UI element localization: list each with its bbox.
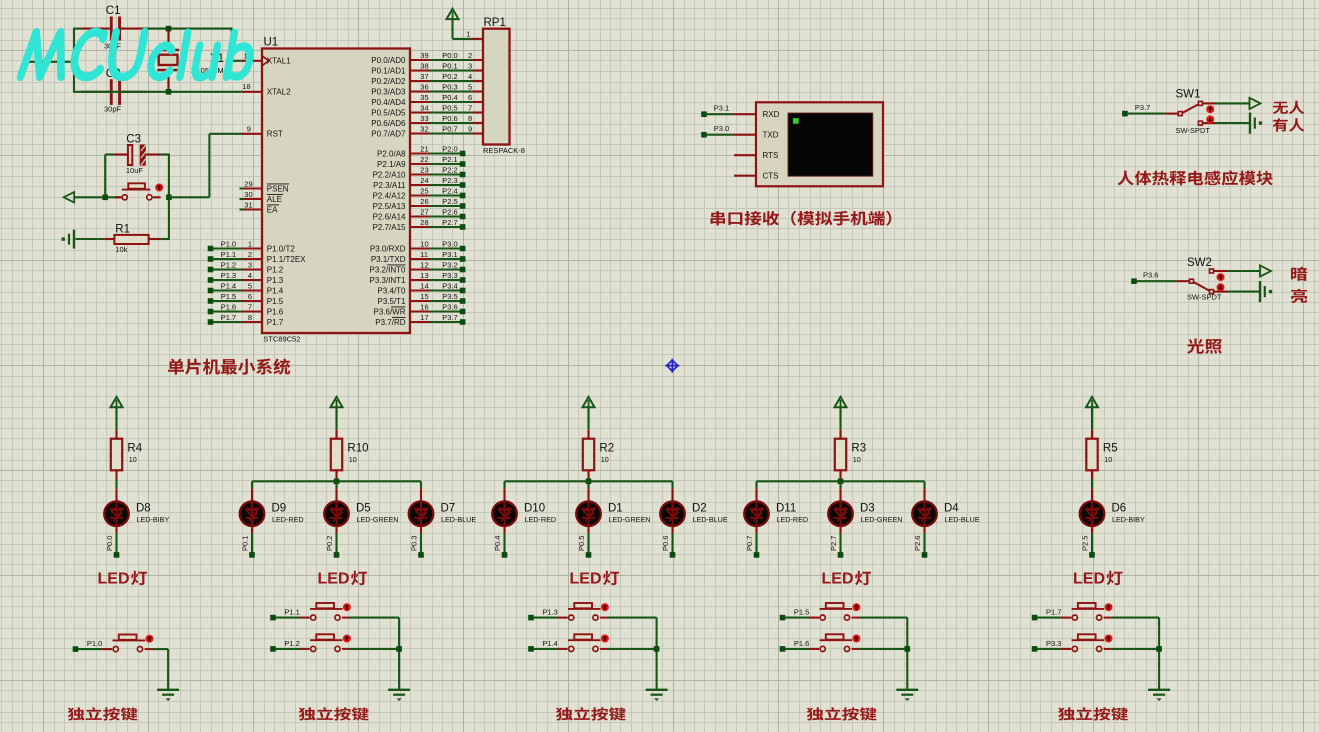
net P0.4 terminal (502, 552, 508, 558)
net P3.1 terminal (701, 111, 707, 117)
pin stub D4 bottom (923, 526, 925, 533)
svg-text:1: 1 (466, 30, 470, 39)
svg-text:10: 10 (349, 455, 357, 464)
svg-text:15: 15 (420, 292, 428, 301)
net P1.4 terminal (528, 646, 534, 652)
toggle indicator (P1.3) (601, 603, 609, 611)
svg-text:C3: C3 (126, 133, 141, 145)
svg-text:10: 10 (420, 239, 428, 248)
caption 亮 (1291, 289, 1307, 303)
svg-text:P2.1: P2.1 (442, 155, 457, 164)
wire net P0.0 (429, 59, 473, 61)
svg-text:P2.3/A11: P2.3/A11 (373, 181, 406, 190)
svg-text:P0.2: P0.2 (442, 72, 457, 81)
svg-text:P1.4: P1.4 (267, 286, 284, 295)
switch SW1 SW-SPDT (1166, 113, 1178, 115)
wire net P3.4 (429, 289, 462, 291)
node junction bus (586, 479, 592, 485)
pin stub R4 top (115, 430, 117, 439)
net P3.3 terminal (460, 277, 466, 283)
wire D5 to terminal (335, 533, 337, 552)
svg-text:6: 6 (468, 93, 472, 102)
LED D4 (LED-BLUE) (912, 501, 937, 526)
svg-text:16: 16 (420, 302, 428, 311)
svg-text:24: 24 (420, 176, 428, 185)
toggle indicator (P1.4) (601, 635, 609, 643)
wire ground to R1 (76, 238, 105, 240)
svg-text:P3.4: P3.4 (442, 281, 457, 290)
net P3.1 terminal (460, 256, 466, 262)
svg-text:LED-BLUE: LED-BLUE (441, 515, 476, 524)
pin stub P0.2/AD2 (410, 80, 429, 82)
svg-text:P1.4: P1.4 (221, 281, 236, 290)
ground (SW1) (1249, 113, 1251, 134)
caption 独立按键 (299, 707, 369, 720)
svg-text:LED-RED: LED-RED (272, 515, 304, 524)
push-button (P1.3) (557, 617, 568, 619)
svg-text:P1.1: P1.1 (284, 608, 299, 617)
wire net P3.3 (429, 279, 462, 281)
caption 人体热释电感应模块 (1117, 170, 1272, 185)
svg-text:LED-BLUE: LED-BLUE (945, 515, 980, 524)
svg-text:7: 7 (468, 103, 472, 112)
ground (SW2) (1259, 281, 1261, 302)
wire SW2 throw1 to arrow (1227, 270, 1260, 272)
wire reset to RST (169, 196, 210, 198)
pin stub RP1 pin 2 (473, 59, 484, 61)
svg-text:TXD: TXD (763, 131, 779, 140)
wire LED bus (757, 480, 925, 482)
svg-text:P2.5: P2.5 (1080, 536, 1089, 551)
svg-text:P3.7/RD: P3.7/RD (375, 318, 405, 327)
pin stub D2 bottom (671, 526, 673, 533)
wire net P1.0 (213, 247, 242, 249)
caption LED灯 (98, 571, 148, 588)
push-button (P3.3) (1061, 648, 1072, 650)
net P3.6 terminal (1131, 278, 1137, 284)
wire SW1 throw1 to arrow (1216, 102, 1250, 104)
svg-text:P0.3: P0.3 (409, 536, 418, 551)
LED D9 (LED-RED) (240, 501, 265, 526)
net P0.7 terminal (754, 552, 760, 558)
wire net P0.7 (429, 132, 473, 134)
wire bus to D2 (671, 481, 673, 488)
svg-text:10uF: 10uF (126, 166, 144, 175)
resistor pack RP1 body (483, 29, 510, 145)
wire left rail vertical (73, 28, 75, 93)
wire net P2.2 (429, 173, 462, 175)
wire R2 to bus (587, 479, 589, 481)
node junction button bus (1156, 646, 1162, 652)
wire net P1.2 (276, 648, 299, 650)
toggle indicator up (SW2) (1217, 273, 1225, 281)
pin stub D5 bottom (335, 526, 337, 533)
svg-text:P2.6: P2.6 (442, 207, 457, 216)
svg-text:27: 27 (420, 207, 428, 216)
pin stub RP1 pin 5 (473, 90, 484, 92)
net P1.5 terminal (780, 615, 786, 621)
svg-text:34: 34 (420, 103, 428, 112)
wire net P1.6 (785, 648, 808, 650)
pin stub RP1 pin 8 (473, 122, 484, 124)
net P1.5 terminal (208, 298, 214, 304)
svg-text:P1.6: P1.6 (794, 639, 809, 648)
wire bus to D4 (923, 481, 925, 488)
svg-text:P0.5: P0.5 (442, 103, 457, 112)
net P2.3 terminal (460, 182, 466, 188)
svg-text:SW-SPDT: SW-SPDT (1187, 292, 1222, 301)
wire net P3.0 (707, 134, 734, 136)
svg-text:P3.6: P3.6 (1143, 271, 1158, 280)
push-button (P1.5) (809, 617, 820, 619)
svg-text:P3.3: P3.3 (1046, 639, 1061, 648)
LED D8 (LED-BIBY) (104, 501, 129, 526)
wire net P0.5 (429, 111, 473, 113)
wire net P1.4 (213, 289, 242, 291)
svg-text:P0.1: P0.1 (442, 61, 457, 70)
svg-text:P0.4: P0.4 (493, 536, 502, 551)
node junction button bus (654, 646, 660, 652)
node junction left rail (71, 59, 77, 65)
svg-text:P0.0: P0.0 (105, 536, 114, 551)
pin stub P3.3/INT1 (410, 279, 429, 281)
pin stub P2.1/A9 (410, 163, 429, 165)
pin stub D7 top (420, 488, 422, 501)
svg-text:P0.1: P0.1 (240, 536, 249, 551)
svg-text:P1.6: P1.6 (221, 302, 236, 311)
net P1.6 terminal (208, 309, 214, 315)
pin EA stub (240, 208, 244, 210)
logo MCUclub (18, 29, 254, 81)
toggle indicator (P3.3) (1105, 635, 1113, 643)
svg-text:P3.3: P3.3 (442, 271, 457, 280)
svg-text:P3.5/T1: P3.5/T1 (377, 297, 406, 306)
svg-text:P0.6: P0.6 (661, 536, 670, 551)
svg-text:12: 12 (420, 260, 428, 269)
pin RTS stub (module) (734, 154, 756, 156)
caption 独立按键 (68, 707, 138, 720)
svg-text:P2.7: P2.7 (442, 218, 457, 227)
pin stub D3 bottom (839, 526, 841, 533)
wire power to R5 (1091, 407, 1093, 430)
wire buttons to ground (350, 617, 399, 619)
svg-text:XTAL1: XTAL1 (267, 57, 291, 66)
wire net P1.6 (213, 310, 242, 312)
pin stub D6 top (1091, 488, 1093, 501)
LED D11 (LED-RED) (744, 501, 769, 526)
wire bus to D10 (503, 481, 505, 488)
wire RP1 pin1 (451, 18, 453, 39)
svg-text:36: 36 (420, 82, 428, 91)
svg-text:P3.6: P3.6 (442, 302, 457, 311)
wire net P1.0 (78, 648, 101, 650)
IC U1 STC89C52 body (262, 49, 410, 334)
wire C3 right rail (161, 153, 169, 155)
svg-text:P1.2: P1.2 (221, 260, 236, 269)
pin stub P2.0/A8 (410, 152, 429, 154)
svg-text:P1.1: P1.1 (221, 250, 236, 259)
net P3.2 terminal (460, 267, 466, 273)
toggle indicator up (SW1) (1206, 105, 1214, 113)
pin RXD stub (module) (734, 113, 756, 115)
svg-text:C1: C1 (106, 5, 121, 17)
svg-text:P3.1/TXD: P3.1/TXD (371, 255, 406, 264)
wire net P1.4 (534, 648, 557, 650)
svg-text:23: 23 (420, 165, 428, 174)
svg-text:10: 10 (1104, 455, 1112, 464)
svg-text:P2.0/A8: P2.0/A8 (377, 149, 406, 158)
svg-text:P2.7: P2.7 (829, 536, 838, 551)
wire D3 to terminal (839, 533, 841, 552)
pin stub P3.1/TXD (410, 258, 429, 260)
net P3.3 terminal (1032, 646, 1038, 652)
svg-text:CTS: CTS (763, 172, 779, 181)
resistor R5 10 (1086, 439, 1097, 471)
svg-text:D10: D10 (524, 503, 545, 515)
svg-text:P2.4/A12: P2.4/A12 (373, 191, 406, 200)
wire net P3.2 (429, 268, 462, 270)
wire R5 to D6 (1091, 479, 1093, 488)
wire D1 to terminal (587, 533, 589, 552)
pin stub P0.5/AD5 (410, 111, 429, 113)
pin stub P0.6/AD6 (410, 122, 429, 124)
svg-text:P0.2/AD2: P0.2/AD2 (371, 77, 406, 86)
LED D6 (LED-BIBY) (1080, 501, 1105, 526)
pin CTS stub (module) (734, 175, 756, 177)
net P2.2 terminal (460, 172, 466, 178)
svg-text:30: 30 (244, 190, 252, 199)
net P2.4 terminal (460, 193, 466, 199)
svg-text:P3.1: P3.1 (442, 250, 457, 259)
pin stub P0.0/AD0 (410, 59, 429, 61)
wire power to R10 (335, 407, 337, 430)
pin stub P0.1/AD1 (410, 69, 429, 71)
wire power to R3 (839, 407, 841, 430)
wire R1 to right rail (161, 238, 170, 240)
caption 独立按键 (1058, 707, 1128, 720)
wire net P1.1 (213, 258, 242, 260)
wire net P0.3 (429, 90, 473, 92)
wire net P2.1 (429, 163, 462, 165)
net P0.2 terminal (334, 552, 340, 558)
wire net P3.3 (1037, 648, 1060, 650)
node crystal top junction (166, 26, 172, 32)
svg-text:3: 3 (248, 260, 252, 269)
caption LED灯 (1073, 571, 1123, 588)
svg-text:P3.2: P3.2 (442, 260, 457, 269)
svg-text:P0.0/AD0: P0.0/AD0 (371, 56, 406, 65)
LED D5 (LED-GREEN) (324, 501, 349, 526)
pin stub R3 bottom (839, 470, 841, 479)
svg-text:2: 2 (468, 51, 472, 60)
toggle indicator (P1.6) (852, 635, 860, 643)
push-button (P1.0) (102, 648, 113, 650)
net P1.3 terminal (528, 615, 534, 621)
svg-text:P0.4/AD4: P0.4/AD4 (371, 98, 406, 107)
net P2.7 terminal (838, 552, 844, 558)
svg-text:P1.6: P1.6 (267, 307, 284, 316)
wire reset row (74, 196, 121, 198)
pin stub D7 bottom (420, 526, 422, 533)
pin stub R4 bottom (115, 470, 117, 479)
svg-text:10k: 10k (115, 245, 127, 254)
svg-text:D3: D3 (860, 503, 875, 515)
svg-text:35: 35 (420, 93, 428, 102)
svg-text:18: 18 (242, 82, 250, 91)
wire R10 to bus (335, 479, 337, 481)
node junction bus (838, 479, 844, 485)
svg-text:2: 2 (248, 250, 252, 259)
net P3.6 terminal (460, 309, 466, 315)
net P2.7 terminal (460, 224, 466, 230)
pin stub R10 bottom (335, 470, 337, 479)
wire net P2.0 (429, 152, 462, 154)
net P0.5 terminal (586, 552, 592, 558)
svg-text:10: 10 (129, 455, 137, 464)
pin stub P1.1 (242, 258, 263, 260)
caption 暗 (1291, 267, 1307, 281)
caption LED灯 (822, 571, 872, 588)
wire XTAL2 rail (74, 91, 242, 93)
svg-text:LED-GREEN: LED-GREEN (357, 515, 399, 524)
capacitor C3 (10uF electrolytic) (114, 153, 128, 155)
svg-text:STC89C52: STC89C52 (263, 335, 300, 344)
svg-text:P1.0: P1.0 (221, 239, 236, 248)
svg-text:P1.7: P1.7 (221, 313, 236, 322)
net P2.5 terminal (460, 203, 466, 209)
svg-text:D4: D4 (944, 503, 959, 515)
wire buttons to ground (608, 617, 657, 619)
pin stub P1.6 (242, 310, 263, 312)
svg-text:17: 17 (420, 313, 428, 322)
svg-text:D6: D6 (1112, 503, 1127, 515)
wire power to R2 (587, 407, 589, 430)
capacitor C2 (82, 91, 110, 93)
wire D11 to terminal (755, 533, 757, 552)
wire net P0.6 (429, 122, 473, 124)
svg-text:29: 29 (244, 179, 252, 188)
wire bus to D3 (839, 481, 841, 488)
pin stub D3 top (839, 488, 841, 501)
wire net P1.3 (534, 617, 557, 619)
svg-text:33: 33 (420, 114, 428, 123)
svg-text:P0.7: P0.7 (442, 124, 457, 133)
svg-text:P2.7/A15: P2.7/A15 (373, 223, 406, 232)
svg-text:RESPACK-8: RESPACK-8 (483, 146, 525, 155)
net P2.6 terminal (460, 214, 466, 220)
svg-text:37: 37 (420, 72, 428, 81)
net P1.3 terminal (208, 277, 214, 283)
svg-text:P1.4: P1.4 (542, 639, 557, 648)
svg-text:P0.0: P0.0 (442, 51, 457, 60)
net P1.1 terminal (208, 256, 214, 262)
svg-text:9: 9 (468, 124, 472, 133)
svg-text:D11: D11 (776, 503, 796, 515)
pin stub P1.4 (242, 289, 263, 291)
svg-text:31: 31 (244, 200, 252, 209)
net P0.3 terminal (418, 552, 424, 558)
svg-text:10: 10 (853, 455, 861, 464)
wire D8 to terminal (115, 533, 117, 552)
pin stub R5 bottom (1091, 470, 1093, 479)
pin stub D11 bottom (755, 526, 757, 533)
wire net P1.2 (213, 268, 242, 270)
svg-text:21: 21 (420, 144, 428, 153)
svg-text:13: 13 (420, 271, 428, 280)
push-button (P1.6) (809, 648, 820, 650)
net P1.1 terminal (270, 615, 276, 621)
svg-text:6: 6 (248, 292, 252, 301)
wire R4 to D8 (115, 479, 117, 488)
LED D10 (LED-RED) (492, 501, 517, 526)
wire button to ground (153, 648, 169, 650)
wire C3 left rail (105, 153, 113, 155)
svg-text:EA: EA (267, 205, 278, 214)
wire net P1.5 (213, 300, 242, 302)
pin stub P2.4/A12 (410, 194, 429, 196)
svg-text:P1.0/T2: P1.0/T2 (267, 244, 296, 253)
wire net P3.6 (1137, 280, 1177, 282)
wire D6 to terminal (1091, 533, 1093, 552)
net P0.1 terminal (249, 552, 255, 558)
svg-text:P0.6/AD6: P0.6/AD6 (371, 119, 406, 128)
net P1.2 terminal (208, 267, 214, 273)
svg-text:9: 9 (247, 124, 251, 133)
net P2.0 terminal (460, 151, 466, 157)
svg-text:25: 25 (420, 186, 428, 195)
pin stub D4 top (923, 488, 925, 501)
svg-text:26: 26 (420, 197, 428, 206)
svg-text:P2.5: P2.5 (442, 197, 457, 206)
node junction button bus (905, 646, 911, 652)
pin stub P2.5/A13 (410, 205, 429, 207)
svg-text:P1.1/T2EX: P1.1/T2EX (267, 255, 306, 264)
pin stub R2 top (587, 430, 589, 439)
toggle indicator (reset button) (155, 184, 163, 192)
node junction bus (334, 479, 340, 485)
svg-text:P0.3/AD3: P0.3/AD3 (371, 87, 406, 96)
wire net P0.4 (429, 101, 473, 103)
svg-text:D7: D7 (441, 503, 456, 515)
wire D9 to terminal (251, 533, 253, 552)
svg-text:LED-RED: LED-RED (777, 515, 809, 524)
net P2.1 terminal (460, 161, 466, 167)
pin stub D9 bottom (251, 526, 253, 533)
power terminal (R5) (1086, 397, 1098, 407)
pin stub D1 bottom (587, 526, 589, 533)
svg-text:P1.3: P1.3 (542, 608, 557, 617)
LED D2 (LED-BLUE) (660, 501, 685, 526)
toggle indicator (P1.0) (145, 635, 153, 643)
push-button (P1.4) (557, 648, 568, 650)
net P1.7 terminal (208, 319, 214, 325)
pin TXD stub (module) (734, 134, 756, 136)
svg-text:1: 1 (248, 239, 252, 248)
pin stub RP1 pin 7 (473, 111, 484, 113)
net P0.6 terminal (670, 552, 676, 558)
svg-text:P0.1/AD1: P0.1/AD1 (371, 66, 406, 75)
svg-text:D2: D2 (692, 503, 707, 515)
svg-text:4: 4 (248, 271, 252, 280)
pin ALE stub (240, 198, 244, 200)
pin stub P2.6/A14 (410, 215, 429, 217)
svg-text:P1.3: P1.3 (267, 276, 284, 285)
pin stub D1 top (587, 488, 589, 501)
node crystal bottom junction (166, 89, 172, 95)
svg-text:SW1: SW1 (1176, 88, 1201, 100)
resistor R4 10 (111, 439, 122, 471)
svg-text:LED-BLUE: LED-BLUE (693, 515, 728, 524)
